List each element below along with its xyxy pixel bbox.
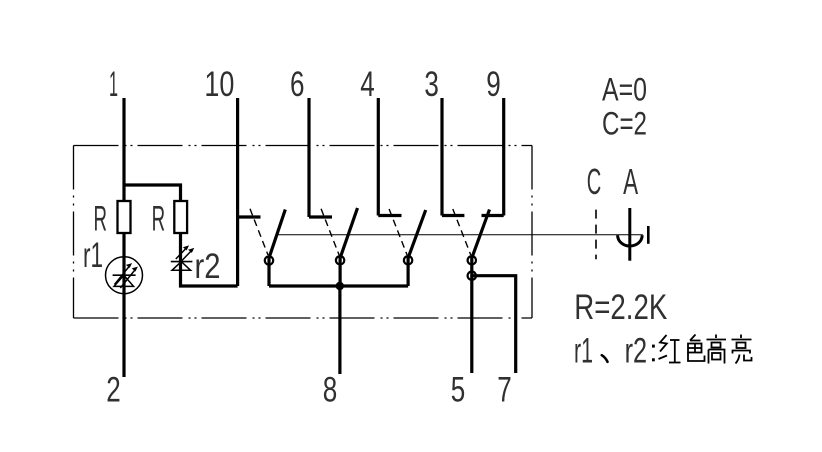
svg-text:r2: r2	[625, 332, 648, 371]
svg-text:1: 1	[109, 65, 118, 104]
svg-text:8: 8	[323, 371, 338, 410]
package outline dashed box	[74, 146, 533, 319]
wire pin 9 vertical	[502, 98, 505, 216]
wire pin 3 fixed contact	[442, 214, 464, 217]
LED r1 triangle	[114, 275, 134, 286]
switch S1 blade	[269, 210, 285, 259]
LED r2 cathode bar	[171, 261, 193, 263]
svg-text:A=0: A=0	[602, 72, 647, 108]
switch S3 blade	[408, 210, 426, 258]
mechanical coupling line	[277, 234, 643, 236]
position C dashed axis	[595, 210, 597, 260]
svg-text:r1: r1	[574, 332, 593, 371]
svg-text:A: A	[623, 161, 638, 202]
actuator cup arc	[618, 235, 643, 246]
svg-text:5: 5	[451, 371, 466, 410]
svg-text:6: 6	[290, 65, 305, 104]
junction dot pin8 bus	[336, 282, 344, 290]
svg-text:r2: r2	[195, 247, 221, 286]
LED r1 circle	[106, 257, 143, 294]
LED r1 cathode bar	[113, 274, 136, 276]
svg-text:2: 2	[106, 371, 121, 410]
LED r2 triangle	[172, 262, 191, 271]
switch S4 pivot	[468, 256, 476, 264]
wire switch1 pivot drop	[267, 256, 270, 286]
svg-text:4: 4	[360, 65, 375, 104]
switch S2 pivot	[336, 256, 344, 264]
note hanzi gao	[707, 335, 727, 364]
note hanzi hong	[659, 335, 681, 363]
switch S2 open-position dashed	[321, 209, 339, 255]
wire switch3 pivot drop	[407, 256, 410, 286]
switch S4 open-position dashed	[453, 209, 471, 255]
note hanzi se	[688, 335, 705, 362]
LED r2 emission arrows	[176, 246, 194, 262]
wire pin 4 vertical	[377, 98, 380, 216]
svg-text:3: 3	[424, 65, 439, 104]
wire branch to pin 7	[472, 276, 516, 373]
svg-text:R=2.2K: R=2.2K	[574, 288, 667, 327]
wire pin 10 fixed contact	[238, 215, 261, 218]
svg-text:C: C	[587, 161, 602, 202]
resistor R2	[174, 201, 187, 233]
svg-text:C=2: C=2	[602, 106, 647, 142]
wire pin 1 vertical	[122, 98, 125, 377]
wire pin 8 vertical	[338, 286, 341, 374]
resistor R1	[118, 201, 131, 233]
switch S1 open-position dashed	[250, 209, 268, 255]
switch S3 open-position dashed	[389, 209, 407, 255]
switch S1 pivot	[265, 256, 273, 264]
LED r1 emission arrows	[115, 264, 138, 288]
actuator stop tick	[647, 226, 650, 244]
actuator A shaft	[628, 208, 631, 261]
wire common bus	[269, 284, 408, 287]
wire pin 10 vertical	[236, 98, 239, 286]
wire pin 6 vertical	[307, 98, 310, 217]
svg-text:7: 7	[497, 371, 512, 410]
switch S4 blade	[472, 210, 490, 259]
svg-text:10: 10	[204, 65, 234, 104]
note hanzi liang	[732, 335, 752, 364]
wire pin 5 vertical	[470, 256, 473, 373]
wire pin 4 fixed contact	[378, 214, 401, 217]
wire switch2 pivot drop	[339, 256, 342, 286]
wire pin 9 fixed contact	[482, 214, 504, 217]
svg-text:R: R	[93, 200, 107, 239]
svg-text:R: R	[152, 200, 166, 239]
note colon	[652, 345, 655, 362]
note ideographic comma	[602, 355, 608, 362]
wire branch pin1 to R2	[124, 185, 238, 286]
switch S3 pivot	[404, 256, 412, 264]
wire pin 3 vertical	[440, 98, 443, 216]
switch S4 contact node	[468, 272, 476, 280]
switch S2 blade	[340, 208, 357, 258]
svg-text:9: 9	[486, 65, 501, 104]
wire pin 6 fixed contact	[309, 215, 332, 218]
svg-text:r1: r1	[83, 236, 103, 275]
